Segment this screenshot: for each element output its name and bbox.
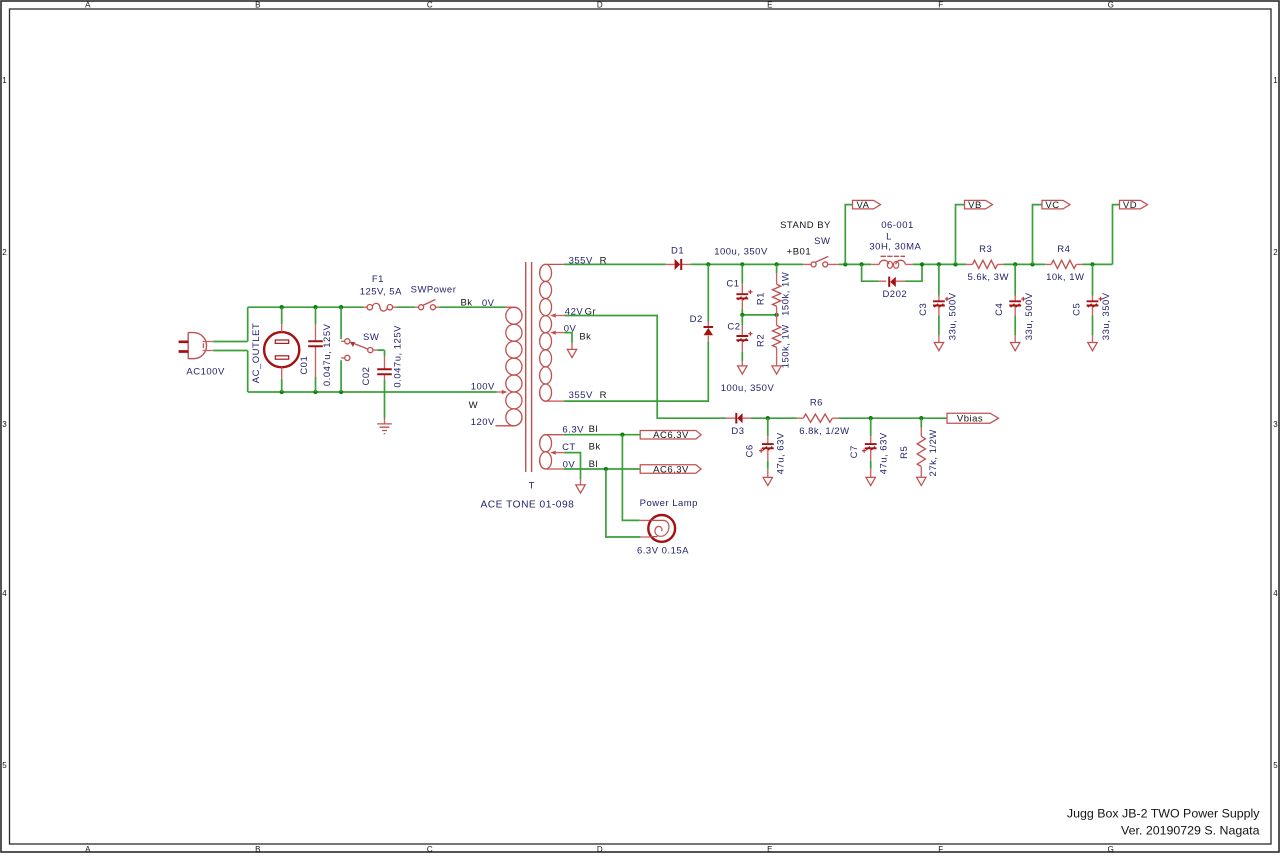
hierarchical label VC stem — [1033, 205, 1043, 265]
capacitor C6 — [767, 418, 769, 436]
heater tap CT — [556, 452, 564, 454]
svg-text:C02: C02 — [361, 367, 372, 386]
svg-text:150k, 1W: 150k, 1W — [780, 272, 791, 316]
svg-text:B: B — [255, 1, 261, 10]
resistor R5 — [920, 418, 922, 427]
transformer heater winding — [540, 435, 552, 452]
svg-text:C3: C3 — [918, 303, 929, 316]
wire R3 to R4 — [1004, 263, 1046, 265]
svg-text:W: W — [469, 400, 478, 411]
wire 6.3V to AC6.3V label — [564, 434, 640, 436]
svg-text:Bl: Bl — [589, 424, 598, 435]
svg-text:1: 1 — [2, 76, 7, 85]
svg-text:C6: C6 — [744, 444, 755, 457]
switch SW standby — [803, 263, 839, 265]
svg-text:SW: SW — [814, 236, 830, 247]
wire bottom rail (100V) — [248, 391, 497, 393]
svg-text:A: A — [85, 1, 91, 10]
wire bus vertical segments — [247, 307, 249, 392]
earth ground below C02 — [377, 424, 392, 434]
transformer primary winding — [506, 307, 522, 324]
svg-text:VC: VC — [1045, 200, 1059, 211]
svg-text:ACE TONE 01-098: ACE TONE 01-098 — [481, 500, 575, 511]
resistor R2 — [776, 315, 778, 325]
svg-text:R: R — [600, 390, 607, 401]
wire 42V to bias row — [565, 316, 726, 419]
svg-text:D1: D1 — [671, 245, 684, 256]
svg-text:VB: VB — [968, 200, 982, 211]
diode D2 — [707, 322, 709, 342]
fuse F1 — [363, 306, 396, 308]
ground below C5 — [1088, 343, 1097, 351]
svg-text:47u, 63V: 47u, 63V — [775, 432, 786, 474]
plug prongs — [179, 342, 189, 352]
svg-text:AC_OUTLET: AC_OUTLET — [251, 323, 262, 383]
resistor R6 — [797, 417, 838, 419]
svg-text:33u, 500V: 33u, 500V — [948, 292, 959, 340]
svg-text:C4: C4 — [994, 303, 1005, 316]
svg-text:47u, 63V: 47u, 63V — [879, 432, 890, 474]
svg-text:D2: D2 — [690, 314, 703, 325]
hierarchical label VA stem — [845, 205, 852, 265]
wire R6 to Vbias — [838, 417, 947, 419]
svg-text:B: B — [255, 845, 261, 853]
wire CT to ground — [564, 453, 580, 479]
wire D202 bypass — [862, 264, 922, 281]
hierarchical label Vbias — [947, 413, 999, 423]
wire plug to bus — [213, 342, 247, 351]
HV secondary top lead 355V — [540, 264, 564, 273]
svg-text:355V: 355V — [569, 390, 593, 401]
wire SW common to C02 — [373, 349, 377, 351]
svg-text:C7: C7 — [849, 445, 860, 458]
svg-text:120V: 120V — [471, 417, 495, 428]
svg-text:R4: R4 — [1057, 244, 1070, 255]
svg-text:G: G — [1108, 1, 1115, 10]
wire D1 output rail — [691, 263, 803, 265]
primary tap 100V — [497, 391, 503, 393]
diode D3 — [726, 417, 751, 419]
svg-text:0.047u, 125V: 0.047u, 125V — [393, 325, 404, 388]
switch SWPower — [415, 306, 439, 308]
svg-text:AC6.3V: AC6.3V — [653, 430, 689, 441]
wire R4 to VD — [1082, 205, 1119, 265]
svg-text:100u, 350V: 100u, 350V — [714, 247, 768, 258]
junction dots top rail — [280, 305, 284, 309]
junction dots bottom rail — [280, 390, 284, 394]
svg-text:G: G — [1108, 845, 1115, 853]
svg-text:Vbias: Vbias — [957, 414, 983, 425]
capacitor C4 — [1014, 264, 1016, 295]
svg-text:D: D — [597, 1, 603, 10]
outlet pin stubs — [281, 324, 283, 332]
ground below C6 — [763, 477, 772, 485]
lamp DS1 body — [640, 520, 651, 537]
svg-text:R6: R6 — [810, 398, 823, 409]
plug pin stubs — [203, 342, 214, 351]
svg-text:AC6.3V: AC6.3V — [653, 464, 689, 475]
svg-text:3: 3 — [1273, 420, 1278, 429]
svg-text:33u, 500V: 33u, 500V — [1024, 292, 1035, 340]
svg-text:T: T — [529, 480, 535, 491]
primary top lead 0V — [506, 307, 522, 316]
svg-text:2: 2 — [1273, 248, 1278, 257]
svg-text:6.3V 0.15A: 6.3V 0.15A — [637, 545, 689, 556]
capacitor C2 — [741, 315, 743, 326]
inductor core dashes — [881, 255, 906, 257]
svg-text:SW: SW — [363, 332, 379, 343]
wire C1-C2 mid node — [742, 314, 776, 316]
plug P1 AC100V — [188, 333, 193, 359]
svg-text:30H, 30MA: 30H, 30MA — [869, 242, 921, 253]
svg-text:C5: C5 — [1072, 303, 1083, 316]
wire D2 branch vertical — [707, 264, 709, 321]
svg-text:4: 4 — [2, 589, 7, 598]
svg-text:D202: D202 — [882, 289, 907, 300]
svg-text:33u, 350V: 33u, 350V — [1101, 292, 1112, 340]
svg-text:F1: F1 — [372, 274, 384, 285]
lamp filament — [651, 520, 669, 536]
heater bottom lead 0V — [540, 460, 564, 469]
ground below CT — [576, 485, 585, 493]
wire 355V top to D1 — [564, 263, 666, 265]
svg-text:C: C — [427, 1, 433, 10]
resistor R1 — [776, 264, 778, 273]
hierarchical label VC — [1042, 200, 1070, 209]
svg-text:C01: C01 — [299, 356, 310, 375]
svg-text:E: E — [767, 1, 773, 10]
hierarchical label VB — [965, 200, 993, 209]
wire lamp upper lead — [622, 435, 639, 521]
wire top rail — [248, 306, 364, 308]
svg-text:+B01: +B01 — [787, 247, 811, 258]
svg-text:2: 2 — [2, 248, 7, 257]
HV secondary bottom lead 355V — [540, 393, 564, 402]
ground below R5 — [917, 477, 926, 485]
wire L to VB node — [913, 263, 967, 265]
svg-text:27k, 1/2W: 27k, 1/2W — [928, 429, 939, 476]
svg-text:STAND BY: STAND BY — [780, 220, 831, 231]
capacitor C7 — [870, 418, 872, 436]
svg-text:125V, 5A: 125V, 5A — [360, 286, 402, 297]
svg-text:VD: VD — [1123, 200, 1137, 211]
resistor R4 — [1051, 260, 1076, 268]
svg-text:6.8k, 1/2W: 6.8k, 1/2W — [799, 426, 849, 437]
svg-text:Bk: Bk — [589, 442, 601, 453]
svg-text:06-001: 06-001 — [881, 220, 914, 231]
heater top lead 6.3V — [540, 435, 564, 444]
svg-text:Ver. 20190729 S. Nagata: Ver. 20190729 S. Nagata — [1121, 823, 1260, 837]
svg-text:Power Lamp: Power Lamp — [640, 498, 698, 509]
svg-text:C: C — [427, 845, 433, 853]
svg-text:E: E — [767, 845, 773, 853]
hierarchical label VD — [1120, 200, 1148, 209]
resistor R3 — [966, 263, 1003, 265]
svg-text:0.047u, 125V: 0.047u, 125V — [322, 323, 333, 386]
svg-text:R5: R5 — [899, 446, 910, 459]
hierarchical label VB stem — [956, 205, 965, 265]
wire 355V bottom to D2 — [564, 342, 709, 401]
diode D1 — [666, 263, 691, 265]
svg-text:5: 5 — [2, 761, 7, 770]
svg-text:F: F — [938, 845, 943, 853]
primary bottom lead 120V — [496, 417, 523, 425]
svg-text:R2: R2 — [755, 334, 766, 347]
ground below R2 — [772, 366, 781, 374]
capacitor C5 — [1092, 264, 1094, 295]
svg-text:1: 1 — [1273, 76, 1278, 85]
svg-text:0V: 0V — [482, 298, 495, 309]
capacitor C1 — [741, 264, 743, 283]
svg-text:R1: R1 — [755, 292, 766, 305]
svg-text:10k, 1W: 10k, 1W — [1046, 272, 1084, 283]
svg-text:C2: C2 — [727, 322, 740, 333]
transformer T core — [526, 262, 532, 472]
ground below C4 — [1011, 343, 1020, 351]
svg-text:Jugg Box JB-2 TWO Power Supply: Jugg Box JB-2 TWO Power Supply — [1067, 807, 1260, 821]
ground 0V HV secondary — [565, 333, 573, 344]
wire D3 to R6 — [751, 417, 797, 419]
secondary tap 42V — [556, 315, 565, 317]
transformer HV secondary winding — [540, 264, 552, 281]
hierarchical label VA — [853, 200, 881, 209]
svg-text:CT: CT — [562, 442, 576, 453]
capacitor C01 — [315, 307, 317, 392]
svg-text:150k, 1W: 150k, 1W — [780, 324, 791, 368]
wire lamp lower lead — [606, 469, 641, 537]
AC outlet J1 AC_OUTLET — [264, 332, 299, 367]
svg-text:D: D — [597, 845, 603, 853]
wire 0V heater to AC6.3V label — [564, 468, 640, 470]
switch SW (line selector) — [340, 307, 342, 392]
svg-text:3: 3 — [2, 420, 7, 429]
svg-text:5.6k, 3W: 5.6k, 3W — [967, 272, 1009, 283]
svg-text:100V: 100V — [471, 381, 495, 392]
svg-text:R3: R3 — [979, 244, 992, 255]
svg-text:F: F — [938, 1, 943, 10]
svg-text:5: 5 — [1273, 761, 1278, 770]
ground below C2 — [738, 366, 747, 374]
wire standby to L — [839, 263, 871, 265]
hierarchical label AC6.3V top — [640, 430, 701, 439]
outlet wire stubs — [281, 307, 283, 392]
svg-text:A: A — [85, 845, 91, 853]
inductor L 06-001 — [871, 263, 913, 265]
svg-text:AC100V: AC100V — [186, 367, 225, 378]
secondary tap 0V — [556, 332, 565, 334]
svg-text:SWPower: SWPower — [411, 285, 457, 296]
svg-text:C1: C1 — [726, 278, 739, 289]
svg-text:100u, 350V: 100u, 350V — [721, 383, 775, 394]
svg-text:VA: VA — [857, 200, 870, 211]
svg-text:D3: D3 — [731, 426, 744, 437]
ground below C3 — [934, 343, 943, 351]
capacitor C3 — [938, 264, 940, 295]
svg-text:Bk: Bk — [579, 332, 591, 343]
capacitor C02 — [384, 357, 386, 381]
svg-text:Bk: Bk — [460, 297, 472, 308]
hierarchical label AC6.3V bottom — [640, 465, 701, 474]
diode D202 — [879, 280, 906, 282]
ground below C7 — [866, 477, 875, 485]
svg-text:4: 4 — [1273, 589, 1278, 598]
